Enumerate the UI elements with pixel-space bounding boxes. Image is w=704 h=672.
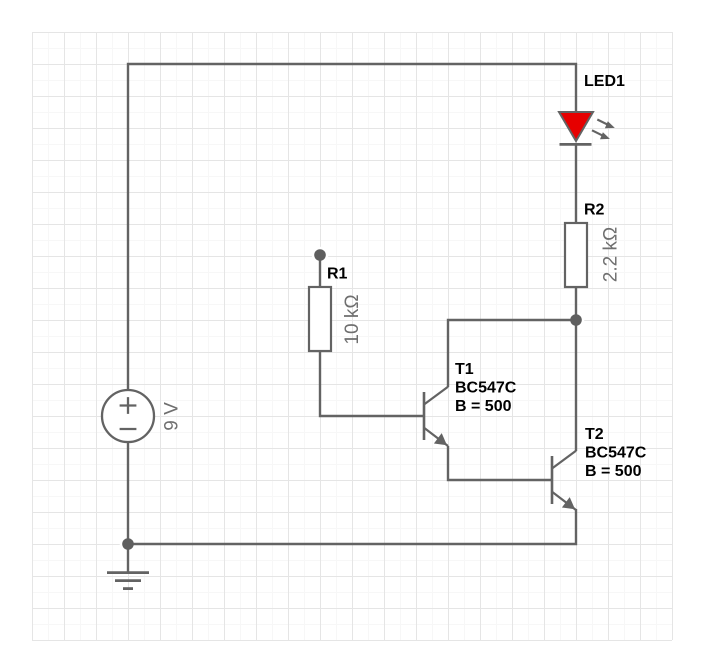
svg-text:T2: T2 [585,426,604,443]
transistor T2 (NPN BC547C) [552,451,576,510]
resistor R2 [565,223,587,287]
svg-text:R2: R2 [584,202,605,219]
wire: T1 emitter down and right to T2 base [448,446,552,480]
svg-text:T1: T1 [455,361,474,378]
resistor R1 [309,287,331,351]
svg-text:LED1: LED1 [584,73,625,90]
value label 2.2 k&#937; of R2 [601,227,622,282]
svg-text:BC547C: BC547C [455,380,517,397]
LED1 light emission arrow 2 [592,130,610,139]
label T1 BC547C B = 500 [455,361,517,415]
svg-text:9 V: 9 V [162,402,183,431]
svg-text:R1: R1 [327,266,348,283]
label LED1 [584,73,625,90]
wire: battery + terminal up left riser, across top rail, down to LED1 anode [128,64,576,390]
node junction: ground / battery - / bottom rail [122,538,134,550]
label T2 BC547C B = 500 [585,426,647,480]
wire: R1 bottom down and right to T1 base [320,351,424,416]
svg-text:B = 500: B = 500 [585,463,642,480]
label R2 [584,202,605,219]
wire: T2 emitter down to bottom rail, left to ground node [128,509,576,544]
wire: R2 bottom through node down to T2 collector [575,287,577,451]
value label 9 V of source V1 [162,402,183,431]
LED D1 (LED1) body [559,112,593,144]
wire: T1 collector up and right to node on R2 branch [448,320,576,387]
wire: LED1 cathode to R2 top [575,144,577,223]
node A (R1 top terminal) [314,249,326,261]
node junction: R2 bottom / T1 collector / T2 collector [570,314,582,326]
svg-text:10 kΩ: 10 kΩ [342,294,363,344]
svg-text:2.2 kΩ: 2.2 kΩ [601,227,622,282]
svg-text:B = 500: B = 500 [455,398,512,415]
svg-text:BC547C: BC547C [585,445,647,462]
value label 10 k&#937; of R1 [342,294,363,344]
wire: battery - terminal down to ground node [127,442,129,544]
ground [107,544,149,589]
transistor T1 (NPN BC547C) [424,387,448,446]
node halo masks under junction dots [120,247,585,553]
label R1 [327,266,348,283]
LED1 light emission arrow 1 [597,120,615,129]
voltage source V1 (9 V battery) [102,390,154,442]
wire: node A to R1 top [319,255,321,287]
